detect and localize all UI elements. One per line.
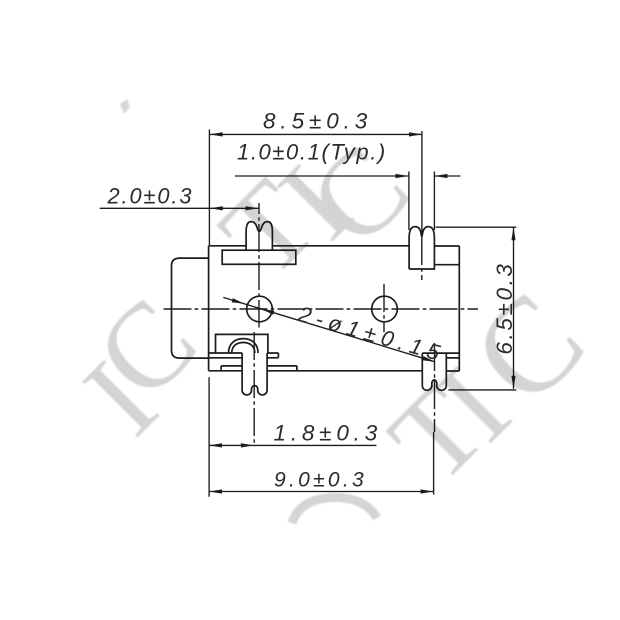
leader line for 2-o1 holes xyxy=(223,297,434,361)
hole 1 (2-o1 left) xyxy=(247,296,273,322)
centerline of top-left terminal and hole 1 xyxy=(258,203,260,328)
contact dome outer arc xyxy=(229,339,259,353)
extension line right (9.0) xyxy=(433,432,435,495)
top-right corner step line xyxy=(434,264,459,266)
leader arrowhead at hole 1 edge xyxy=(232,298,245,304)
centerline of top-right terminal xyxy=(421,237,423,280)
dimension line 1.8 with text underline xyxy=(209,444,376,446)
horizontal centerline through holes xyxy=(164,308,479,310)
dimension line 1.0 with text leader xyxy=(235,175,460,177)
contact window (bottom-left opening) xyxy=(216,334,268,353)
housing body right edge xyxy=(458,246,460,371)
extension line (6.5 bottom) xyxy=(448,389,516,391)
extension line left (1.8 / 9.0) xyxy=(208,377,210,497)
leader arrowhead at hole 1 center xyxy=(262,309,275,315)
arrowhead 2.0 right xyxy=(246,206,259,210)
bottom-right fork terminal xyxy=(422,353,446,390)
arrowhead 9.0 left xyxy=(209,489,222,493)
svg-text:2.0±0.3: 2.0±0.3 xyxy=(107,184,194,209)
centerline of bottom-left fork terminal xyxy=(253,332,255,445)
housing body bottom edge xyxy=(209,370,460,372)
svg-text:9.0±0.3: 9.0±0.3 xyxy=(274,469,367,492)
arrowhead 9.0 right xyxy=(421,489,434,493)
extension line (1.0 left) xyxy=(408,172,410,231)
dimension line 9.0 xyxy=(209,491,434,493)
contact dome inner arc xyxy=(232,343,255,354)
extension line left (8.5 / 2.0) xyxy=(208,130,210,246)
arrowhead 1.0 right xyxy=(434,174,447,178)
arrowhead 6.5 bottom xyxy=(511,376,515,389)
arrowhead 8.5 left xyxy=(210,132,223,136)
watermark arc (bottom centre) xyxy=(292,498,377,524)
top-left terminal base plate xyxy=(222,250,296,264)
housing body left edge xyxy=(208,246,210,371)
arrowhead 1.8 left xyxy=(209,443,222,447)
arrowhead 8.5 right xyxy=(409,132,422,136)
bottom mounting tab xyxy=(221,366,297,371)
hole 2 (2-o1 right) xyxy=(372,296,398,322)
arrowhead 1.0 left xyxy=(396,174,409,178)
housing body top edge xyxy=(209,245,460,247)
arrowhead 2.0 left xyxy=(210,206,223,210)
top-right crown terminal xyxy=(409,227,434,269)
dimension line 8.5 xyxy=(210,133,422,135)
arrowhead 1.8 right xyxy=(241,443,254,447)
centerline of bottom-right fork terminal xyxy=(434,343,436,432)
leader arrowhead at bottom-right terminal xyxy=(422,356,435,362)
svg-text:1.0±0.1(Typ.): 1.0±0.1(Typ.) xyxy=(237,140,387,165)
bottom-left fork terminal xyxy=(242,353,267,395)
bottom-right slot top and step lines xyxy=(422,353,459,358)
bottom terminal plate xyxy=(209,353,279,358)
arrowhead 6.5 top xyxy=(511,227,515,240)
centerline of hole 2 xyxy=(383,284,385,332)
dimension line 6.5 (vertical) xyxy=(513,227,515,389)
svg-text:6.5±0.3: 6.5±0.3 xyxy=(492,261,517,354)
extension line right (8.5) xyxy=(421,131,423,237)
svg-text:8.5±0.3: 8.5±0.3 xyxy=(263,109,372,134)
dimension line 2.0 with text underline xyxy=(100,207,259,209)
jack barrel (rounded boss on left) xyxy=(172,258,209,358)
extension line (1.0 right) xyxy=(433,172,435,231)
top-left crown terminal xyxy=(246,222,272,251)
watermark tick (upper left) xyxy=(120,99,130,114)
extension line (6.5 top) xyxy=(436,226,517,228)
svg-text:1.8±0.3: 1.8±0.3 xyxy=(274,421,383,446)
